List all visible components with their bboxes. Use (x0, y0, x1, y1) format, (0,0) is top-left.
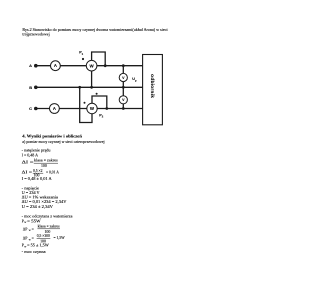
load box odbiornik (143, 55, 163, 125)
node junction W1 voltage on phase B (90, 86, 93, 89)
svg-text:- moc czynna: - moc czynna (22, 250, 46, 254)
svg-text:4. Wyniki pomiarów i obliczeń: 4. Wyniki pomiarów i obliczeń (22, 133, 82, 138)
wattmeter W2 (87, 103, 97, 113)
node W2 asterisk dot left (84, 102, 86, 104)
svg-text:- moc odczytana z watomierza: - moc odczytana z watomierza (22, 215, 73, 219)
svg-text:klasa × zakres: klasa × zakres (34, 158, 58, 162)
svg-text:100: 100 (41, 164, 47, 168)
wire W1 voltage coil to phase B (91, 71, 93, 87)
node junction voltmeter column phase B (122, 86, 125, 89)
node terminal B (34, 86, 38, 90)
wire phase C (36, 108, 143, 110)
formula delta Pw klasa (23, 225, 60, 235)
svg-text:=: = (32, 237, 34, 241)
wire phase A (36, 65, 143, 67)
node terminal A (34, 64, 38, 68)
ammeter A2 (50, 104, 60, 114)
svg-text:trójprzewodowej: trójprzewodowej (22, 33, 49, 37)
svg-text:Rys.2 Stanowisko do pomiaru mo: Rys.2 Stanowisko do pomiaru mocy czynnej… (22, 28, 167, 32)
wire phase B (36, 86, 143, 88)
node junction voltmeter column phase C (122, 107, 125, 110)
svg-text:odbiornik: odbiornik (150, 74, 155, 98)
svg-text:- napięcie: - napięcie (22, 186, 40, 190)
wire W2 voltage coil to phase B (80, 87, 92, 122)
formula delta Pw numeric (23, 234, 65, 243)
svg-text:A: A (54, 63, 57, 68)
wire voltmeter column (122, 66, 124, 109)
voltmeter V2 (119, 96, 127, 104)
wire W1 current-coil loop (92, 52, 106, 66)
svg-text:ΔI =: ΔI = (22, 170, 32, 174)
formula delta I klasa (22, 158, 59, 168)
wire W2 current-coil loop (92, 96, 107, 109)
formula delta I numeric (22, 169, 59, 178)
line Pw result (22, 243, 49, 248)
svg-text:A: A (29, 63, 32, 68)
node junction voltmeter column phase A (122, 64, 125, 67)
node junction W2 voltage on phase B (78, 86, 81, 89)
node junction W1 loop on phase A (104, 64, 107, 67)
node terminal C (34, 107, 38, 111)
voltmeter V1 (119, 73, 127, 81)
svg-text:klasa × zakres: klasa × zakres (38, 225, 60, 229)
svg-text:ΔI =: ΔI = (22, 160, 34, 164)
line Pw=55W (22, 219, 41, 224)
svg-text:=: = (32, 227, 34, 231)
svg-text:= 55W: = 55W (27, 219, 41, 223)
svg-text:a) pomiar mocy czynnej w sieci: a) pomiar mocy czynnej w sieci czteroprz… (22, 140, 104, 144)
node W2 asterisk dot top (96, 93, 98, 95)
svg-text:U = 234 V: U = 234 V (22, 191, 40, 195)
svg-text:A: A (53, 106, 56, 111)
node W1 asterisk dot (82, 58, 84, 60)
svg-text:B: B (29, 85, 32, 90)
node junction W2 loop on phase C (105, 107, 108, 110)
wattmeter W1 (86, 60, 97, 71)
ammeter A1 (51, 61, 61, 71)
svg-text:- natężenie prądu: - natężenie prądu (22, 149, 51, 153)
svg-text:C: C (29, 106, 32, 111)
